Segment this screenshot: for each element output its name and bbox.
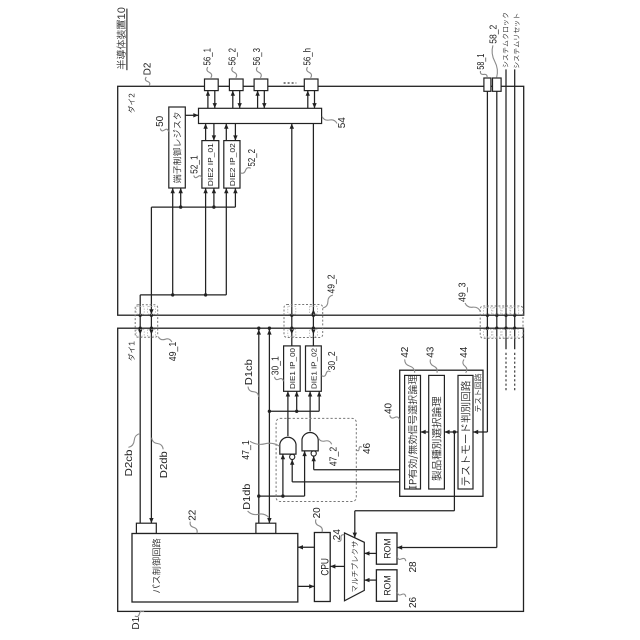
svg-text:ROM: ROM [382, 538, 393, 559]
svg-text:47_1: 47_1 [241, 440, 252, 460]
svg-text:30_2: 30_2 [327, 351, 338, 370]
svg-text:56_3: 56_3 [252, 48, 263, 66]
svg-text:DIE2 IP_02: DIE2 IP_02 [228, 143, 237, 186]
svg-text:28: 28 [408, 561, 419, 573]
svg-text:49_1: 49_1 [168, 341, 179, 361]
svg-text:58_1: 58_1 [476, 53, 487, 69]
svg-text:44: 44 [459, 346, 470, 358]
svg-text:47_2: 47_2 [328, 446, 339, 466]
svg-text:26: 26 [408, 596, 419, 608]
svg-text:22: 22 [188, 509, 199, 521]
svg-text:D1cb: D1cb [244, 359, 255, 385]
svg-text:42: 42 [400, 346, 411, 358]
svg-text:50: 50 [155, 115, 166, 127]
svg-text:40: 40 [383, 402, 394, 414]
svg-text:D2: D2 [143, 62, 154, 75]
svg-text:ROM: ROM [382, 575, 393, 596]
svg-text:DIE2 IP_01: DIE2 IP_01 [206, 143, 215, 186]
svg-text:49_3: 49_3 [458, 282, 469, 302]
svg-text:D2db: D2db [159, 451, 170, 478]
svg-text:D1: D1 [131, 616, 142, 629]
svg-text:20: 20 [312, 507, 323, 519]
svg-text:52_1: 52_1 [190, 155, 201, 174]
svg-text:D1db: D1db [242, 483, 253, 509]
svg-text:49_2: 49_2 [327, 274, 338, 293]
svg-text:DIE1 IP_02: DIE1 IP_02 [309, 348, 318, 389]
svg-text:54: 54 [337, 117, 348, 129]
svg-text:52_2: 52_2 [247, 149, 258, 167]
svg-text:46: 46 [362, 442, 373, 454]
svg-text:43: 43 [426, 346, 437, 358]
svg-text:56_1: 56_1 [203, 48, 214, 66]
svg-text:30_1: 30_1 [271, 356, 282, 375]
svg-text:58_2: 58_2 [488, 24, 499, 43]
svg-text:56_2: 56_2 [227, 48, 238, 66]
svg-text:56_h: 56_h [302, 48, 313, 66]
svg-text:CPU: CPU [320, 558, 332, 576]
svg-text:DIE1 IP_00: DIE1 IP_00 [288, 348, 297, 389]
svg-text:D2cb: D2cb [124, 449, 135, 476]
